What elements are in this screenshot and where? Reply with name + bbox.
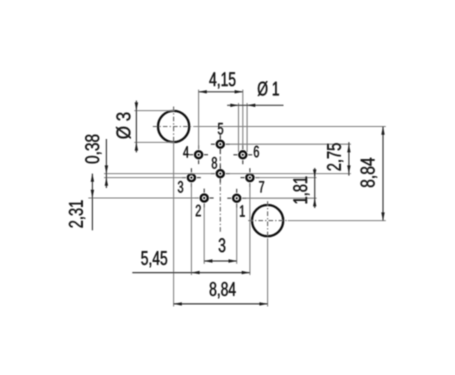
pin 2 number label [196,205,201,217]
dimension 8,84 bottom right arrow [259,302,267,305]
hole A horizontal extension right [194,126,386,128]
pin 8 number label [212,157,217,169]
ext line Ø3 top tangent [134,110,174,112]
dimension 3 value [219,238,226,252]
pin 4 number label [183,146,189,157]
dimension 1,81 bottom arrow [313,198,316,206]
pin 6 number label [254,146,259,158]
ext line pin 2 row left [88,197,198,199]
pin 1 number label [240,205,245,216]
ext line pin 1 column down [236,204,238,264]
ext line Ø1 left tangent [238,103,240,152]
ext line pin 3 row left [104,177,186,179]
dimension 2,31 bottom arrow [91,190,94,198]
dimension 2,75 value [327,143,343,170]
ext line Ø1 right tangent [246,103,248,152]
dimension Ø3 bottom arrow [135,142,138,150]
ext line pin 1 row right [242,197,316,199]
dimension 1,81 top arrow [313,169,316,177]
dimension 8,84 bottom line [174,303,268,305]
dimension 4,15 left arrow [199,90,207,93]
contact pin 2 [195,189,214,208]
dimension 4,15 value [209,72,235,88]
dimension 8,84 right line [382,127,384,221]
mounting hole A (Ø3) [158,111,189,142]
dimension Ø1 line [227,104,283,106]
ext line pin 2 column down [203,204,205,264]
dimension 4,15 right arrow [235,90,243,93]
hole A horizontal centerline [153,126,194,128]
dimension 5,45 right arrow [242,271,250,274]
dimension 2,31 line [91,174,93,231]
dimension Ø1 left arrow [230,104,238,107]
pin 7 number label [259,181,264,192]
ext line pin 5 row right [226,143,351,145]
dimension 4,15 line [199,91,243,93]
dimension 8,84 bottom left arrow [174,302,182,305]
dimension 1,81 line [314,168,316,208]
dimension 3 right arrow [229,259,237,262]
mounting hole B [252,205,283,236]
dimension 2,75 bottom arrow [347,165,350,173]
dimension 5,45 line [132,272,250,274]
dimension Ø1 right arrow [247,104,255,107]
dimension 0,38 line [105,139,107,188]
dimension Ø1 value [258,81,279,96]
ext line pin 7 column down [249,183,251,275]
hole B vertical extension down [267,238,269,306]
dimension 2,75 line [348,142,350,175]
contact pin 1 [227,189,246,208]
dimension Ø3 value [116,113,131,139]
contact pin 8 [211,164,230,183]
contact pin 3 [182,168,201,187]
contact pin 7 [241,168,260,187]
ext line pin 7 row right [256,177,317,179]
contact pin 4 [189,145,208,164]
ext line pin 8 row left [104,173,215,175]
dimension 8,84 right value [361,158,378,187]
ext line pin 4 column up [198,90,200,149]
hole A vertical extension down [173,144,175,306]
dimension 1,81 value [293,177,309,204]
dimension 0,38 top arrow [105,165,108,173]
contact pin 6 [233,145,252,164]
dimension 8,84 bottom value [210,282,236,298]
pin 3 number label [178,181,183,193]
dimension Ø3 line [135,101,137,153]
ext line Ø3 bottom tangent [134,141,174,143]
dimension 2,75 top arrow [347,144,350,152]
contact pin 5 [211,135,230,154]
dimension 2,31 top arrow [91,174,94,182]
dimension 0,38 value [85,135,101,164]
hole B horizontal centerline [248,220,287,222]
pin column centerline (pins 5-8) [219,136,221,232]
dimension 0,38 bottom arrow [105,178,108,186]
dimension 3 line [204,260,237,262]
hole A vertical centerline [173,107,175,145]
dimension 5,45 value [141,251,167,267]
dimension 8,84 right top arrow [381,127,384,135]
hole B vertical centerline [267,201,269,238]
ext line pin 8 row right [226,173,351,175]
dimension 2,31 value [69,200,85,227]
ext line pin 6 column up [242,90,244,150]
ext line pin 3 column down [190,183,192,275]
dimension 8,84 right bottom arrow [381,212,384,220]
pin 5 number label [218,123,223,135]
dimension 3 left arrow [204,259,212,262]
dimension Ø3 top arrow [135,102,138,110]
hole B horizontal extension right [288,220,386,222]
dimension 5,45 left arrow [191,271,199,274]
